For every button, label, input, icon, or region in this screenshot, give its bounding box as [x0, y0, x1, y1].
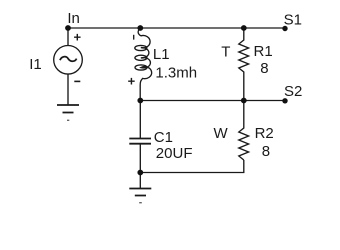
- svg-text:S2: S2: [284, 83, 302, 100]
- node In: [65, 25, 71, 31]
- terminal S2: [282, 98, 287, 103]
- source I1: [54, 46, 83, 75]
- svg-text:C1: C1: [154, 129, 173, 146]
- resistor R2: [239, 101, 249, 161]
- node R1/R2 junction: [241, 98, 247, 104]
- svg-text:8: 8: [260, 60, 268, 77]
- wire middle rail L1 bottom to S2: [140, 100, 285, 102]
- wire bottom rail C1 bottom to R2 bottom: [140, 160, 244, 173]
- wire I1 bottom lead: [67, 74, 69, 105]
- node R1 top: [241, 25, 247, 31]
- svg-text:L1: L1: [153, 46, 170, 63]
- svg-text:T: T: [221, 43, 230, 60]
- svg-text:20UF: 20UF: [156, 145, 193, 162]
- svg-text:S1: S1: [284, 11, 302, 28]
- L1 polarity tick: [133, 35, 135, 40]
- svg-text:+: +: [128, 73, 136, 88]
- svg-text:I1: I1: [29, 56, 42, 73]
- svg-text:R1: R1: [254, 43, 273, 60]
- resistor R1: [239, 28, 249, 101]
- ground below I1: [57, 105, 79, 113]
- svg-text:1.3mh: 1.3mh: [155, 65, 197, 82]
- node L1 top: [137, 25, 143, 31]
- node C1 bottom: [137, 170, 143, 176]
- ground below C1: [129, 189, 151, 196]
- svg-text:W: W: [214, 125, 229, 142]
- svg-text:8: 8: [262, 143, 270, 160]
- capacitor C1: [139, 101, 141, 139]
- terminal S1: [282, 26, 287, 31]
- svg-text:In: In: [67, 10, 80, 27]
- svg-text:+: +: [74, 30, 82, 45]
- wire top rail In to S1: [68, 27, 285, 29]
- inductor L1: [138, 29, 152, 101]
- wire C1 ground lead: [139, 173, 141, 189]
- svg-text:R2: R2: [255, 125, 274, 142]
- label minus I1: [74, 80, 80, 82]
- wire I1 top lead: [67, 28, 69, 46]
- node L1 bottom: [137, 98, 143, 104]
